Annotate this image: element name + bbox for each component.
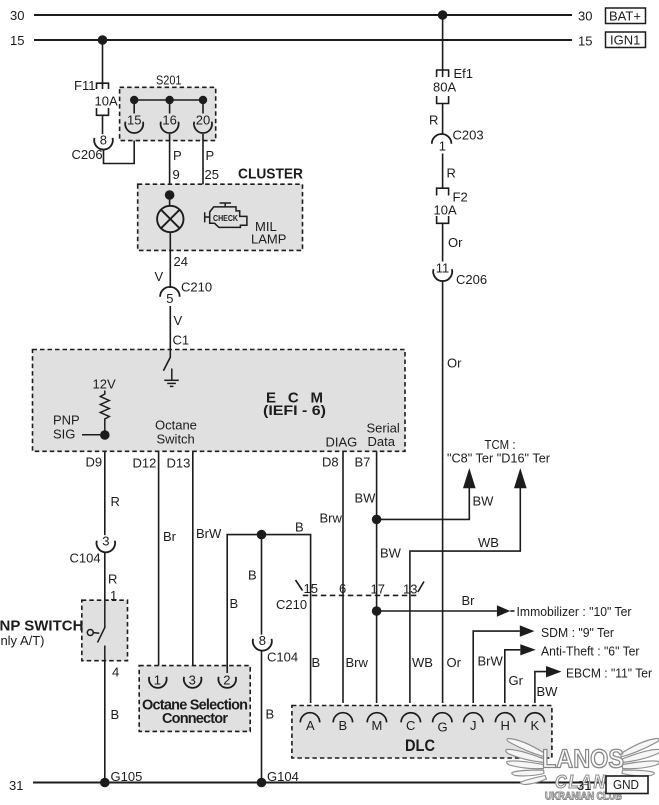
- svg-text:10A: 10A: [95, 94, 118, 109]
- svg-text:SDM : "9" Ter: SDM : "9" Ter: [541, 625, 615, 640]
- svg-text:30: 30: [578, 9, 592, 24]
- wire junction to MIL lamp: [169, 195, 171, 206]
- wire C210-13 to TCM D16 arrow (WB): [410, 487, 520, 595]
- wire F2 to C206 pin 11: [442, 223, 444, 261]
- wire Ef1 to C203: [442, 104, 444, 136]
- DLC pin B: [333, 713, 352, 733]
- svg-text:C1: C1: [173, 333, 190, 348]
- arrow to TCM D16: [514, 468, 527, 488]
- junction dot on line 30: [438, 10, 448, 20]
- svg-text:R: R: [108, 572, 117, 587]
- svg-text:B7: B7: [355, 455, 371, 470]
- connector C210 pin 5: [160, 280, 212, 307]
- wire D13 down to octane pin 3: [192, 451, 194, 673]
- svg-text:11: 11: [436, 261, 450, 276]
- svg-text:J: J: [470, 718, 477, 733]
- wire line30 down to fuse Ef1: [442, 15, 444, 77]
- svg-text:(Only A/T): (Only A/T): [0, 633, 45, 648]
- DLC pin K: [525, 713, 544, 733]
- S201 splice dot pin 15: [130, 96, 138, 104]
- wire B7 down to DLC pin M: [376, 451, 378, 703]
- splice block S201 box: [120, 87, 216, 140]
- svg-text:9: 9: [173, 167, 180, 182]
- arrow to immobilizer: [497, 605, 510, 616]
- wire C104-3 to PNP switch: [104, 552, 106, 600]
- svg-text:C210: C210: [276, 597, 307, 612]
- svg-text:25: 25: [205, 167, 219, 182]
- resistor (PNP pull-up): [100, 391, 109, 436]
- svg-text:3: 3: [102, 533, 109, 548]
- svg-text:DLC: DLC: [405, 736, 435, 755]
- svg-text:(IEFI - 6): (IEFI - 6): [263, 402, 326, 418]
- octane pin 2: [218, 672, 236, 688]
- svg-text:CLUSTER: CLUSTER: [238, 166, 303, 183]
- wire S201 pin 16 down to cluster: [169, 134, 171, 195]
- ECM box: [33, 350, 406, 452]
- svg-text:13: 13: [403, 582, 417, 597]
- svg-text:C210: C210: [181, 280, 212, 295]
- svg-text:17: 17: [371, 582, 385, 597]
- DLC pin G: [433, 713, 452, 735]
- svg-text:15: 15: [10, 33, 24, 48]
- svg-text:1: 1: [439, 139, 446, 154]
- bus line 15: [34, 39, 572, 41]
- wire DLC pin J up to SDM arrow: [473, 631, 520, 703]
- svg-text:24: 24: [174, 254, 188, 269]
- svg-text:P: P: [206, 148, 215, 163]
- wire C203 to fuse F2: [442, 154, 444, 189]
- svg-text:Anti-Theft : "6" Ter: Anti-Theft : "6" Ter: [541, 644, 640, 659]
- wire octane pin 2 up and across (B net): [227, 535, 310, 703]
- wire D8 down to DLC pin B: [342, 451, 344, 703]
- connector C206 pin 11: [433, 261, 487, 287]
- arrow to Anti-Theft: [520, 644, 536, 655]
- fuse F11 10A: [97, 83, 109, 115]
- arrow to SDM: [520, 625, 535, 636]
- svg-text:K: K: [531, 718, 540, 733]
- svg-text:R: R: [447, 166, 456, 181]
- svg-text:80A: 80A: [433, 80, 456, 95]
- svg-text:BrW: BrW: [196, 526, 222, 541]
- instrument cluster box: [138, 184, 303, 250]
- check engine icon: [205, 203, 247, 227]
- svg-text:12V: 12V: [93, 377, 116, 392]
- svg-text:S201: S201: [156, 73, 182, 88]
- svg-text:WB: WB: [412, 655, 433, 670]
- svg-text:DIAG: DIAG: [326, 435, 358, 450]
- PNP switch contact: [87, 600, 105, 661]
- svg-text:Br: Br: [462, 593, 476, 608]
- svg-text:IGN1: IGN1: [610, 33, 640, 48]
- junction dot B net: [257, 530, 267, 540]
- svg-text:PNP: PNP: [53, 413, 80, 428]
- wire fuse F11 to connector C206 pin 8: [102, 115, 104, 136]
- svg-text:C104: C104: [267, 650, 298, 665]
- IGN1 terminal box: [606, 32, 646, 48]
- DLC pin M: [367, 713, 386, 733]
- svg-text:8: 8: [259, 633, 266, 648]
- svg-text:EBCM : "11" Ter: EBCM : "11" Ter: [566, 666, 653, 681]
- svg-text:B: B: [248, 568, 257, 583]
- svg-text:15: 15: [304, 581, 318, 596]
- svg-text:B: B: [339, 718, 348, 733]
- svg-text:PNP SWITCH: PNP SWITCH: [0, 618, 83, 635]
- label MIL LAMP: [251, 219, 286, 247]
- connector C210 row (dashed): [296, 580, 425, 595]
- svg-text:B: B: [312, 655, 321, 670]
- connector C203 pin 1: [432, 128, 484, 154]
- label PNP SIG: [53, 413, 80, 442]
- wire BW junction to TCM C8 arrow: [377, 487, 470, 519]
- connector C104 pin 8: [253, 633, 298, 665]
- svg-text:BW: BW: [537, 684, 559, 699]
- svg-text:B: B: [295, 520, 304, 535]
- svg-text:Br: Br: [163, 529, 177, 544]
- svg-text:31: 31: [577, 778, 591, 793]
- S201 pin 20 number and arc: [194, 112, 212, 133]
- svg-text:2: 2: [223, 672, 230, 687]
- svg-text:BAT+: BAT+: [609, 9, 641, 24]
- svg-text:G105: G105: [111, 769, 143, 784]
- octane pin 1: [149, 672, 167, 688]
- wire C210-13 pin down to DLC pin C: [409, 595, 411, 703]
- svg-text:"C8" Ter "D16" Ter: "C8" Ter "D16" Ter: [447, 451, 551, 466]
- junction dot BW net: [372, 515, 382, 525]
- wire C104-8 down to G104: [261, 651, 263, 783]
- fuse F2 10A: [437, 188, 449, 223]
- wire D9 down to C104: [104, 451, 106, 536]
- ECM internal ground: [164, 369, 179, 387]
- svg-text:D9: D9: [86, 455, 103, 470]
- svg-text:B: B: [266, 707, 275, 722]
- svg-text:LAMP: LAMP: [251, 232, 286, 247]
- svg-text:B: B: [230, 596, 239, 611]
- svg-text:C206: C206: [72, 147, 103, 162]
- svg-text:31: 31: [9, 778, 23, 793]
- ground G104 dot: [257, 778, 267, 788]
- svg-text:Octane: Octane: [155, 418, 197, 433]
- PNP SIG junction dot: [100, 430, 110, 440]
- svg-text:6: 6: [339, 581, 346, 596]
- svg-text:V: V: [174, 313, 183, 328]
- arrow to TCM C8: [463, 468, 476, 488]
- svg-text:30: 30: [10, 8, 24, 23]
- svg-text:Brw: Brw: [320, 511, 343, 526]
- bus line 31 (ground): [33, 781, 606, 783]
- svg-text:G104: G104: [267, 769, 299, 784]
- svg-text:D12: D12: [133, 456, 157, 471]
- svg-text:5: 5: [166, 291, 173, 306]
- wire Br to immobilizer arrow: [377, 610, 497, 612]
- svg-text:R: R: [111, 494, 120, 509]
- GND terminal box: [606, 776, 648, 794]
- connector C104 pin 3: [70, 533, 116, 565]
- connector C206 pin 8: [72, 132, 113, 162]
- svg-text:F11: F11: [74, 78, 95, 93]
- PNP SIG lead line: [82, 434, 100, 436]
- svg-text:Or: Or: [447, 356, 462, 371]
- wire PNP to G105: [104, 661, 106, 783]
- svg-text:15: 15: [578, 34, 592, 49]
- S201 pin 15 number and arc: [125, 112, 143, 133]
- wire B net down to C104 pin 8: [261, 535, 263, 636]
- bus line 30: [34, 14, 572, 16]
- svg-text:LANOS: LANOS: [542, 744, 624, 774]
- svg-text:H: H: [501, 718, 510, 733]
- svg-text:P: P: [173, 148, 182, 163]
- MIL lamp bulb: [157, 206, 183, 232]
- DLC pin H: [495, 713, 514, 733]
- svg-text:GND: GND: [613, 777, 639, 792]
- svg-text:Ef1: Ef1: [454, 66, 474, 81]
- svg-text:C206: C206: [456, 272, 487, 287]
- DLC pin J: [464, 713, 483, 733]
- S201 pin stubs: [134, 100, 203, 114]
- svg-text:15: 15: [127, 112, 141, 127]
- immobilizer arrow tail: [510, 610, 514, 612]
- junction dot Br net: [372, 606, 382, 616]
- octane selection connector box: [139, 666, 250, 732]
- S201 splice dot pin 20: [199, 96, 207, 104]
- svg-text:C203: C203: [453, 128, 484, 143]
- svg-text:Connector: Connector: [162, 711, 228, 727]
- arrow to EBCM: [546, 666, 562, 677]
- svg-text:C104: C104: [70, 551, 101, 566]
- ground G105 dot: [100, 778, 110, 788]
- svg-text:Switch: Switch: [157, 432, 195, 447]
- wire Or net C206-11 down to DLC pin G: [442, 281, 444, 703]
- svg-text:4: 4: [112, 665, 119, 680]
- svg-text:WB: WB: [478, 535, 499, 550]
- svg-text:Immobilizer : "10" Ter: Immobilizer : "10" Ter: [517, 604, 633, 619]
- wire C206-8 to S201 pin 15: [104, 133, 135, 164]
- PNP switch box: [82, 600, 128, 661]
- svg-text:D13: D13: [167, 456, 191, 471]
- label Octane Switch: [155, 418, 197, 447]
- fuse Ef1 80A: [437, 70, 449, 104]
- svg-text:G: G: [438, 720, 448, 735]
- svg-text:10A: 10A: [434, 203, 457, 218]
- DLC pin C: [401, 713, 420, 733]
- wire lamp down to C210: [169, 232, 171, 288]
- svg-text:1: 1: [154, 672, 161, 687]
- svg-text:BW: BW: [380, 546, 402, 561]
- wire from line 15 down to fuse F11: [102, 40, 104, 89]
- S201 pin 16 number and arc: [161, 112, 179, 133]
- svg-text:B: B: [111, 707, 120, 722]
- svg-text:3: 3: [189, 672, 196, 687]
- ECM C1 switch blade: [163, 350, 170, 371]
- svg-text:Data: Data: [368, 434, 396, 449]
- wire DLC pin H up to Anti-Theft arrow: [505, 650, 521, 703]
- wire C210-5 to ECM C1: [169, 306, 171, 351]
- svg-text:D8: D8: [322, 455, 339, 470]
- DLC connector box: [292, 706, 552, 759]
- svg-text:BW: BW: [473, 494, 495, 509]
- wire D12 down to octane pin 1: [158, 451, 160, 673]
- BAT+ terminal box: [606, 8, 646, 24]
- svg-text:BrW: BrW: [478, 654, 504, 669]
- wire S201 pin 20 down to cluster: [170, 134, 203, 195]
- Lanos Clan watermark logo: [506, 739, 659, 785]
- svg-text:Or: Or: [448, 235, 463, 250]
- svg-text:8: 8: [100, 132, 107, 147]
- wire DLC pin K up to EBCM arrow: [535, 672, 546, 703]
- svg-text:Brw: Brw: [346, 655, 369, 670]
- svg-text:CHECK: CHECK: [213, 214, 238, 223]
- S201 internal bus wire: [134, 99, 203, 101]
- svg-text:Gr: Gr: [509, 673, 524, 688]
- svg-text:Or: Or: [447, 655, 462, 670]
- junction dot on line 15: [98, 35, 108, 45]
- svg-text:BW: BW: [355, 491, 377, 506]
- S201 splice dot pin 16: [165, 96, 173, 104]
- cluster junction dot: [165, 190, 175, 200]
- label Octane Selection Connector: [142, 698, 248, 728]
- svg-text:SIG: SIG: [53, 427, 75, 442]
- label Serial Data: [367, 421, 400, 450]
- svg-text:V: V: [155, 269, 164, 284]
- svg-text:A: A: [306, 718, 315, 733]
- svg-text:16: 16: [162, 112, 176, 127]
- svg-text:C: C: [406, 718, 415, 733]
- octane pin 3: [184, 672, 202, 688]
- DLC pin A: [300, 713, 319, 733]
- svg-text:M: M: [372, 718, 383, 733]
- svg-text:20: 20: [196, 112, 210, 127]
- svg-text:R: R: [429, 113, 438, 128]
